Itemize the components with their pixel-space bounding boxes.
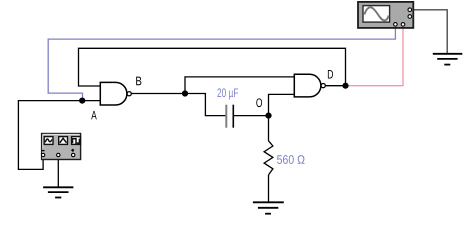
wire [325, 85, 345, 87]
wire [268, 175, 270, 202]
wire [268, 116, 270, 141]
wire [185, 77, 294, 94]
wire [234, 115, 269, 117]
function generator XFG1 [41, 134, 80, 160]
NAND gate U2 [294, 74, 325, 97]
wire [185, 94, 226, 116]
node D [342, 83, 348, 89]
node B [182, 90, 188, 96]
ground (function generator) [43, 187, 73, 197]
wire [57, 157, 59, 188]
wire [414, 10, 448, 54]
node O [265, 113, 271, 119]
ground (resistor) [253, 202, 284, 213]
wire [48, 28, 395, 101]
wire [269, 94, 295, 115]
capacitor C1 [217, 88, 238, 127]
node A [79, 98, 85, 104]
wire [131, 93, 185, 95]
ground (scope) [433, 54, 463, 65]
wire [346, 28, 404, 86]
wire [79, 48, 346, 86]
resistor R1 [264, 141, 304, 175]
oscilloscope XSC1 [358, 2, 413, 28]
NAND gate U1 [100, 82, 131, 105]
wire [18, 101, 100, 170]
